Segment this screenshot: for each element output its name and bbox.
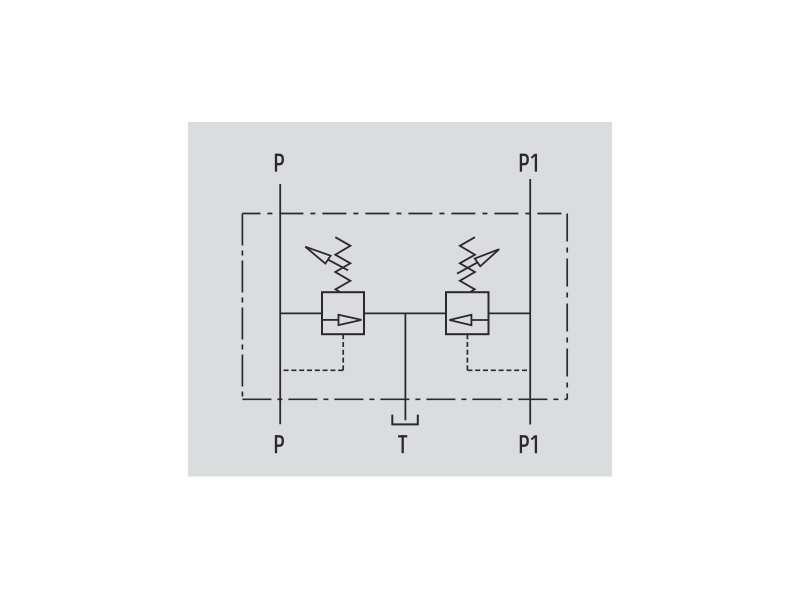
V1 flow arrow (points right) (323, 315, 362, 325)
V2 adjustment arrow (points up-right) (457, 249, 499, 274)
V1 pilot line (dashed) (280, 334, 343, 370)
label P1 (bottom) (521, 435, 536, 453)
V1 spring (335, 237, 350, 292)
wire P to valve V1 (280, 312, 322, 314)
relief valve V1 body (322, 292, 364, 334)
wire V1 to V2 (through T junction) (364, 312, 446, 314)
tank line T (404, 313, 406, 420)
port line P (279, 184, 281, 424)
label P1 (top) (521, 154, 536, 172)
relief valve V2 body (446, 292, 489, 334)
port line P1 (529, 179, 531, 425)
enclosure boundary (dash-dot valve block outline) (242, 214, 567, 400)
wire V2 to P1 (489, 312, 531, 314)
tank symbol (392, 415, 418, 425)
V2 pilot line (dashed) (467, 334, 530, 370)
V2 flow arrow (points left) (449, 315, 487, 325)
V1 adjustment arrow (points up-left) (305, 247, 348, 271)
label P (top) (276, 154, 283, 172)
background panel (188, 122, 612, 477)
label T (398, 435, 407, 453)
V2 spring (460, 237, 475, 292)
label P (bottom) (276, 435, 283, 453)
